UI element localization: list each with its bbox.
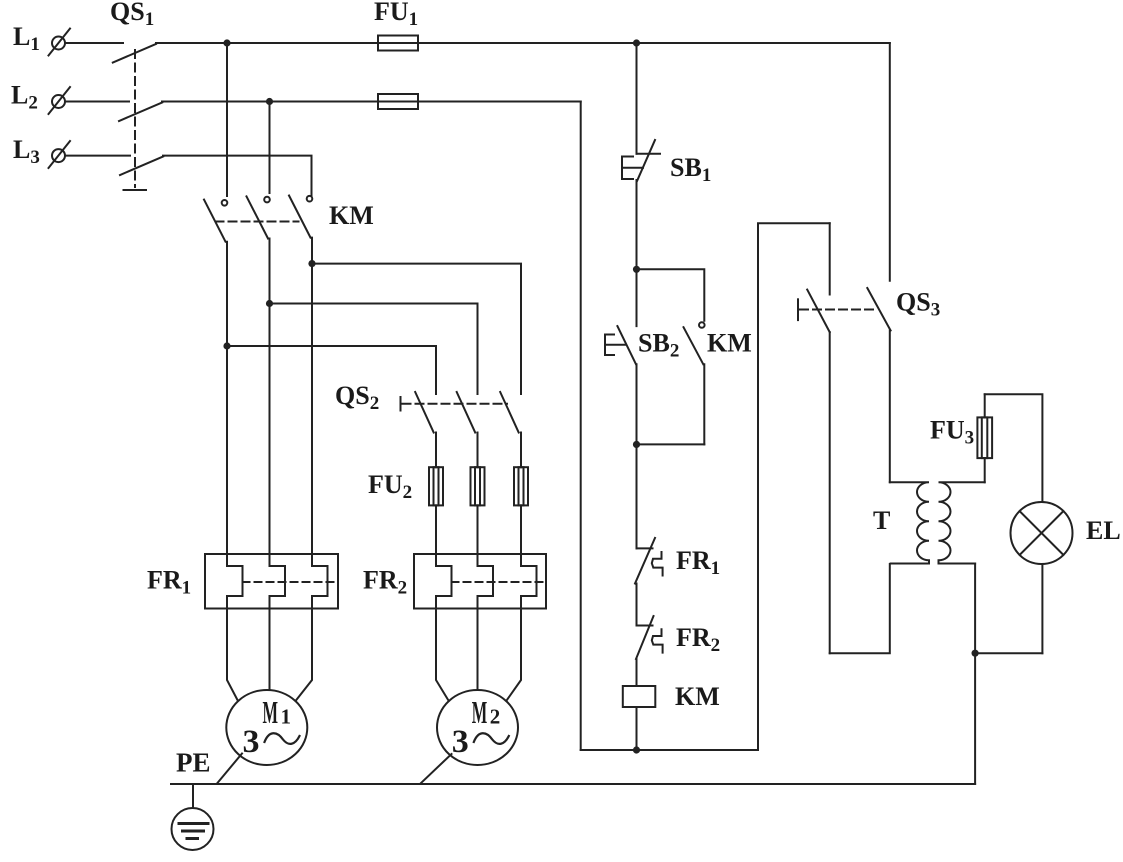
fuse FU3 [977, 394, 992, 482]
node junction L2-drop2 [266, 98, 273, 105]
node L3 terminal [49, 141, 71, 168]
ground symbol [172, 784, 214, 850]
lamp EL [1011, 502, 1073, 564]
relay FR1 heater 1 [227, 566, 243, 701]
switch QS1 pole 1 blade [113, 44, 156, 63]
fuse FU2 a [429, 467, 443, 505]
label M1 [263, 694, 292, 730]
node junction L1-control [633, 39, 640, 46]
wire branch pole3 to QS2 [312, 264, 521, 394]
pushbutton SB2 NO [605, 326, 636, 364]
label M1 3-phase [243, 724, 300, 760]
wire right riser [758, 223, 830, 750]
wire L3 to QS1 [65, 155, 130, 157]
relay FR1 box [205, 554, 338, 609]
wire M2 PE diagonal [421, 754, 452, 784]
wire control drop from L1 [636, 43, 638, 154]
wire L1 to QS1 [65, 42, 123, 44]
contactor KM linkage dashed [216, 221, 299, 223]
wire SB2 down [636, 364, 638, 548]
relay FR1 heater 3 [296, 566, 328, 701]
svg-text:3: 3 [243, 724, 260, 760]
pushbutton SB1 NC [622, 140, 660, 181]
node L1 terminal [49, 29, 71, 56]
wire FU2 c down [520, 505, 522, 566]
wire EL bottom link [975, 652, 1042, 654]
relay FR2 box [414, 554, 546, 609]
node junction pole1 branch [223, 342, 230, 349]
wire secondary bottom to rail [974, 564, 976, 785]
wire L2 to QS1 [65, 101, 129, 103]
wire FR1 to FR2 contact [636, 584, 638, 626]
wire KM pole2 down [269, 239, 271, 567]
wire drop2 to KM [269, 102, 271, 194]
wire coil to bottom rail [636, 707, 638, 750]
svg-text:1: 1 [281, 705, 292, 729]
switch QS1 linkage dashed [124, 50, 147, 190]
wire M1 PE diagonal [217, 754, 242, 784]
node junction pole3 branch [308, 260, 315, 267]
svg-text:2: 2 [490, 705, 501, 729]
transformer T secondary [939, 482, 985, 563]
switch QS2 linkage dashed [401, 397, 508, 411]
relay FR1 linkage dashed [243, 581, 339, 583]
wire drop1 to KM [226, 43, 228, 196]
fuse FU1 a [378, 36, 418, 51]
svg-text:3: 3 [452, 724, 469, 760]
wire L3 bus [163, 156, 312, 196]
svg-text:T: T [873, 506, 890, 535]
relay FR2 heater 1 [436, 566, 452, 701]
node junction bottom rail [633, 746, 640, 753]
wire FU3 top link to EL [985, 394, 1043, 502]
contactor KM pole 1 [204, 200, 227, 242]
wire L1 bus [156, 42, 890, 44]
wire KM aux branch top [637, 269, 705, 320]
switch QS3 linkage dashed [798, 299, 878, 320]
switch QS2 pole 3 blade [500, 392, 521, 467]
svg-text:EL: EL [1086, 516, 1121, 545]
wire control bottom rail [581, 749, 758, 751]
wire KM aux branch bottom [637, 443, 705, 445]
node junction parallel bottom [633, 441, 640, 448]
contact KM aux [684, 322, 705, 444]
wire branch pole1 to QS2 [227, 346, 436, 394]
wire FU2 a down [435, 505, 437, 566]
motor M2 circle [437, 690, 518, 765]
wire L2 drop to control rail [580, 102, 582, 751]
switch QS1 pole 2 blade [119, 103, 162, 122]
fuse FU1 b [378, 94, 418, 109]
wire FU2 b down [477, 505, 479, 566]
node junction L1-drop1 [223, 39, 230, 46]
contactor KM pole 3 [289, 196, 312, 238]
switch QS1 pole 3 blade [120, 157, 163, 176]
contactor KM pole 2 [247, 196, 270, 238]
node junction pole2 branch [266, 300, 273, 307]
node junction parallel top [633, 266, 640, 273]
node L2 terminal [49, 87, 71, 114]
wire KM pole1 down [226, 242, 228, 566]
relay FR2 linkage dashed [452, 581, 547, 583]
fuse FU2 c [514, 467, 528, 505]
relay FR1 heater 2 [270, 566, 286, 690]
wire FR2 to coil [636, 659, 638, 686]
relay FR2 heater 3 [506, 566, 536, 701]
switch QS3 pole left [807, 223, 830, 653]
coil KM [623, 686, 656, 707]
wire SB1 to junction [636, 180, 638, 326]
contact FR2 NC [636, 616, 663, 659]
label M2 3-phase [452, 724, 509, 760]
wire QS3 left bottom link [830, 564, 890, 653]
svg-text:KM: KM [707, 329, 752, 358]
switch QS2 pole 1 blade [415, 392, 436, 467]
node junction secondary-EL [972, 650, 979, 657]
motor M1 circle [226, 690, 307, 765]
label M2 [472, 694, 501, 730]
svg-text:KM: KM [329, 201, 374, 230]
wire L2 bus [162, 101, 581, 103]
relay FR2 heater 2 [478, 566, 494, 690]
svg-text:KM: KM [675, 682, 720, 711]
svg-text:M: M [263, 694, 279, 730]
transformer T primary [890, 482, 929, 563]
svg-text:M: M [472, 694, 488, 730]
wire branch pole2 to QS2 [270, 304, 478, 395]
switch QS3 pole right [867, 43, 890, 482]
wire PE rail [171, 783, 975, 785]
contact FR1 NC [635, 538, 663, 584]
fuse FU2 b [471, 467, 485, 505]
switch QS2 pole 2 blade [457, 392, 478, 467]
wire EL bottom [1041, 564, 1043, 653]
svg-text:PE: PE [176, 748, 211, 778]
wire KM pole3 down [311, 238, 313, 566]
